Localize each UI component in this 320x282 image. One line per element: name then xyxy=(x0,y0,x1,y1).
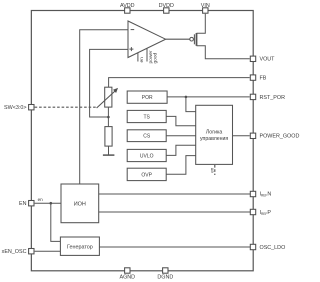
svg-text:AVDD: AVDD xyxy=(120,3,135,9)
block control logic xyxy=(196,105,233,164)
pin VOUT xyxy=(250,56,255,61)
svg-text:Логика: Логика xyxy=(206,130,222,136)
wire drain to VOUT xyxy=(197,46,250,59)
svg-text:VIN: VIN xyxy=(201,3,210,9)
pin AVDD xyxy=(125,8,130,13)
svg-text:POR: POR xyxy=(142,95,153,101)
wire logic en stub dashed xyxy=(214,165,216,175)
svg-text:SW<3:0>: SW<3:0> xyxy=(4,105,26,111)
svg-text:en: en xyxy=(210,167,215,173)
pin VIN xyxy=(203,8,208,13)
pin POWER_GOOD xyxy=(250,133,255,138)
wire op-amp plus input to divider tap xyxy=(90,49,128,117)
wire FB to divider top xyxy=(109,78,250,88)
op-amp U1 xyxy=(128,21,166,62)
svg-text:xEN_OSC: xEN_OSC xyxy=(2,249,27,255)
svg-text:en: en xyxy=(38,197,44,202)
wire EN to ION xyxy=(35,202,61,204)
wire POR branch to logic xyxy=(186,97,196,112)
block UVLO xyxy=(127,149,166,161)
block generator xyxy=(60,237,99,255)
svg-text:RST_POR: RST_POR xyxy=(260,95,286,101)
svg-text:управления: управления xyxy=(200,136,228,142)
wire POR output to RST_POR xyxy=(167,96,250,98)
pin AGND xyxy=(125,268,130,273)
block TS xyxy=(127,110,166,122)
wire R2 to ground xyxy=(108,146,110,155)
svg-text:Генератор: Генератор xyxy=(67,244,93,250)
wire logic to POWER_GOOD xyxy=(233,135,250,137)
wire ION output to IREFN xyxy=(99,193,250,195)
svg-text:TS: TS xyxy=(144,114,151,120)
block POR xyxy=(127,91,167,103)
svg-text:UVLO: UVLO xyxy=(140,153,154,159)
node divider tap xyxy=(107,116,110,119)
wire SW<3:0> dashed to potentiometer arrow xyxy=(35,106,98,108)
wire UVLO to logic xyxy=(166,145,196,155)
chip outer border xyxy=(31,11,253,271)
op-amp en / power good labels xyxy=(140,50,159,63)
svg-text:AGND: AGND xyxy=(120,274,136,280)
node POR branch xyxy=(185,96,188,99)
pin DGND xyxy=(163,268,168,273)
wire generator to OSC_LDO xyxy=(99,246,250,248)
pin RST_POR xyxy=(250,94,255,99)
pin OSC_LDO xyxy=(250,244,255,249)
wire CS to logic xyxy=(166,135,196,137)
ground xyxy=(103,154,115,156)
wire divider middle xyxy=(107,107,109,127)
svg-text:DGND: DGND xyxy=(157,274,173,280)
block CS xyxy=(127,130,166,142)
svg-text:en: en xyxy=(140,57,145,63)
wire OVP to logic xyxy=(166,156,196,175)
wire TS to logic xyxy=(166,116,196,125)
svg-text:DVDD: DVDD xyxy=(159,3,174,9)
svg-text:VOUT: VOUT xyxy=(260,57,276,63)
svg-text:OVP: OVP xyxy=(141,172,152,178)
svg-text:OSC_LDO: OSC_LDO xyxy=(260,245,286,251)
block ION voltage reference xyxy=(61,184,99,223)
pin IREFN xyxy=(250,191,255,196)
potentiometer R1 (digitally trimmed) xyxy=(97,87,118,108)
pin DVDD xyxy=(164,8,169,13)
pin xEN_OSC xyxy=(29,249,34,254)
pin EN xyxy=(29,201,34,206)
transistor Q1 PMOS xyxy=(166,33,197,46)
wire xEN_OSC to generator xyxy=(35,250,61,252)
pin SW<3:0> xyxy=(29,105,34,110)
svg-text:FB: FB xyxy=(260,76,267,82)
block OVP xyxy=(127,168,166,180)
svg-text:POWER_GOOD: POWER_GOOD xyxy=(260,134,300,140)
wire VIN to transistor source xyxy=(197,14,206,34)
wire reference from ION to op-amp minus input xyxy=(80,30,128,184)
svg-text:CS: CS xyxy=(143,134,151,140)
svg-text:EN: EN xyxy=(19,201,27,207)
node EN branch xyxy=(50,202,53,205)
svg-text:good: good xyxy=(153,52,159,63)
pin FB xyxy=(250,75,255,80)
wire EN branch to generator xyxy=(51,203,61,241)
pin IREFP xyxy=(250,209,255,214)
svg-text:ИОН: ИОН xyxy=(74,201,86,207)
wire ION output to IREFP xyxy=(99,211,250,213)
pins: squares xyxy=(29,8,256,273)
resistor R2 xyxy=(105,127,112,147)
